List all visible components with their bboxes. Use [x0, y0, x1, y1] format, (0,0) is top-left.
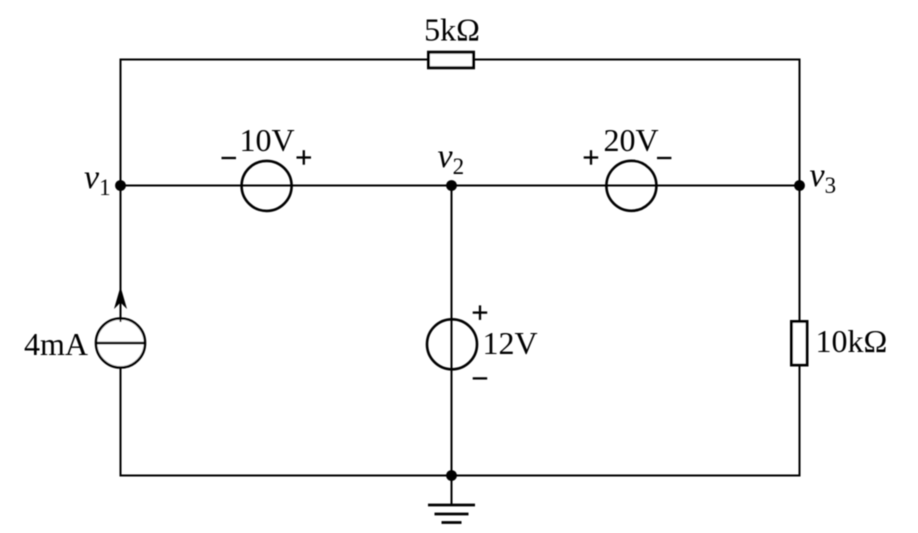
svg-text:4mA: 4mA [24, 326, 88, 362]
svg-text:12V: 12V [483, 325, 538, 361]
svg-text:10kΩ: 10kΩ [816, 323, 888, 359]
svg-text:10V: 10V [239, 122, 294, 158]
svg-text:20V: 20V [603, 122, 658, 158]
svg-text:5kΩ: 5kΩ [424, 12, 480, 48]
